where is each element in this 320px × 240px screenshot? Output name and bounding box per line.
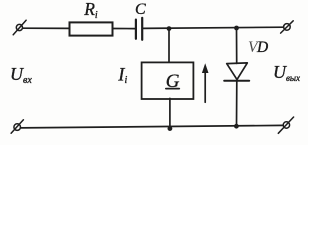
- wire node to G box top: [168, 29, 170, 63]
- wire input to resistor: [23, 27, 69, 29]
- capacitor C right plate: [141, 18, 143, 40]
- bottom-left terminal slash: [11, 120, 23, 133]
- svg-text:Ii: Ii: [117, 66, 127, 87]
- svg-text:C: C: [135, 1, 146, 18]
- current source G box: [142, 62, 194, 99]
- bottom-left terminal: [14, 124, 21, 131]
- node junction dot bottom left: [168, 126, 173, 131]
- node junction dot bottom right: [234, 124, 239, 129]
- node junction dot top left: [167, 26, 172, 31]
- top wire capacitor to output terminal: [143, 27, 283, 28]
- wire G box bottom to bottom rail: [169, 98, 171, 128]
- resistor R1 body: [70, 22, 113, 35]
- current direction arrow head: [202, 63, 209, 73]
- svg-text:Uвых: Uвых: [273, 62, 300, 83]
- diode VD cathode bar: [224, 80, 249, 82]
- bottom rail wire: [21, 125, 284, 128]
- output terminal top-right: [284, 24, 291, 31]
- input terminal slash: [13, 20, 26, 35]
- node junction dot top right: [234, 26, 239, 31]
- svg-text:VD: VD: [248, 39, 268, 56]
- svg-text:Uвх: Uвх: [10, 64, 32, 86]
- input terminal top-left: [16, 24, 22, 30]
- wire node to diode anode: [236, 28, 238, 63]
- bottom-right terminal slash: [278, 117, 293, 133]
- bottom-right terminal: [283, 122, 289, 128]
- wire diode cathode to bottom rail: [236, 81, 238, 127]
- wire resistor to capacitor: [113, 28, 135, 30]
- output terminal slash: [281, 21, 294, 33]
- diode VD triangle: [227, 63, 248, 80]
- G underline: [166, 88, 179, 90]
- capacitor C left plate: [135, 20, 137, 39]
- svg-text:Ri: Ri: [83, 0, 98, 21]
- current direction arrow shaft: [204, 71, 206, 103]
